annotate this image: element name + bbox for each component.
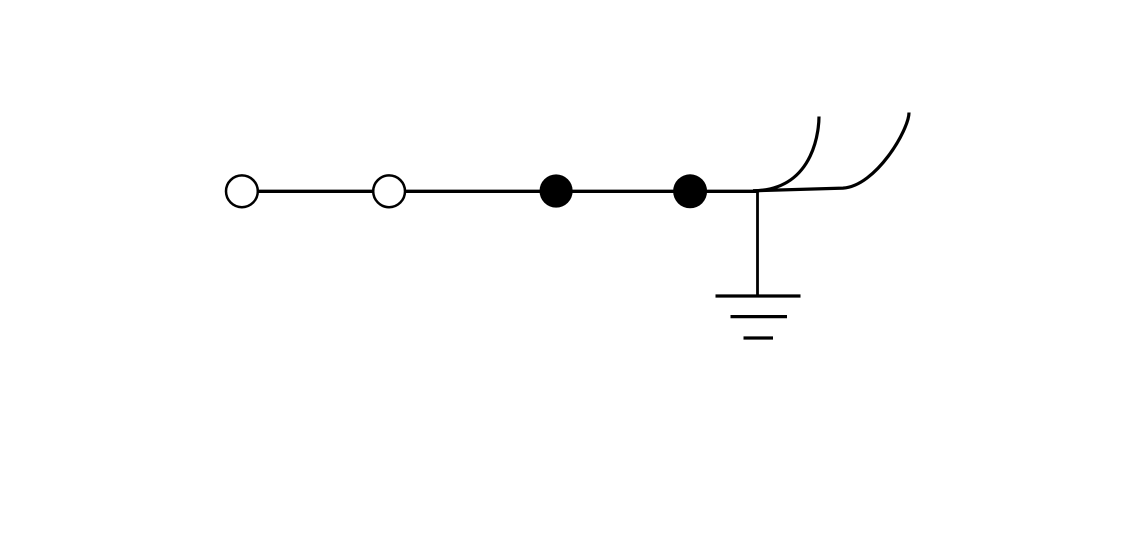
wire vertical to ground bbox=[756, 191, 759, 297]
curved wire 2 (outer) bbox=[753, 113, 909, 191]
open terminal node 1 bbox=[226, 175, 258, 207]
junction dot 1 bbox=[540, 174, 573, 207]
curved wire 1 (inner) bbox=[753, 117, 819, 191]
wire main horizontal bus bbox=[242, 190, 758, 193]
junction dot 2 bbox=[673, 174, 707, 208]
ground bbox=[716, 296, 801, 338]
open terminal node 2 bbox=[373, 175, 405, 207]
